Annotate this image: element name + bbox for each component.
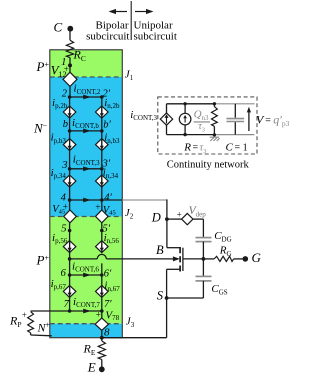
svg-text:6′: 6′ <box>104 268 112 279</box>
wire left 3-4 <box>69 169 71 200</box>
node D <box>165 217 169 221</box>
wire V78 to node8 <box>101 330 103 337</box>
current source ip,2b <box>63 106 76 118</box>
current source ip,56 <box>63 241 76 253</box>
svg-text:3: 3 <box>61 160 67 171</box>
svg-text:+: + <box>64 64 69 74</box>
wire right 6p-7p <box>101 275 103 311</box>
svg-text:7: 7 <box>64 299 70 310</box>
wire RC to node1 <box>69 58 71 66</box>
wire right 2p-bp <box>101 97 103 131</box>
svg-text:b′: b′ <box>103 119 111 130</box>
svg-text:S: S <box>157 289 164 303</box>
wire right 3p-4p <box>101 169 103 200</box>
node 6 <box>68 273 72 277</box>
svg-text:5: 5 <box>61 224 66 235</box>
junction J1 dashed line <box>50 76 123 78</box>
wire left b-3 <box>69 131 71 169</box>
svg-text:+: + <box>63 201 68 211</box>
wire 6-6p with iCONT,6 arrow <box>70 274 102 276</box>
resistor RG <box>214 256 233 261</box>
node 5p <box>100 229 104 233</box>
current source in,56 <box>96 241 109 253</box>
node 8 <box>100 336 104 340</box>
current source in,34 <box>96 175 109 187</box>
dependent source V78 (J3 diamond) <box>95 318 108 330</box>
wire CDG to gate node <box>202 242 204 259</box>
continuity network dashed box <box>158 97 257 154</box>
wire gate node to CGS <box>202 259 204 276</box>
current source in,b3 <box>96 139 109 151</box>
wire D to Vdep <box>167 218 182 220</box>
node 3 <box>68 167 72 171</box>
node 5 <box>68 229 72 233</box>
resistor RE <box>98 341 105 360</box>
wire CGS to S <box>202 281 204 298</box>
wire node8 to RE <box>101 338 103 341</box>
wire 7-7p with iCONT,7 arrow <box>70 310 102 312</box>
node B junction on left chain <box>68 257 72 261</box>
left arrow <box>112 11 127 13</box>
terminal C <box>67 26 73 32</box>
wire V45R to node5p <box>101 223 103 231</box>
continuity source diamond <box>166 104 168 113</box>
wire 2-2p with iCONT,2 arrow <box>70 96 102 98</box>
wire 7p to V78 <box>101 311 103 318</box>
node bp <box>100 129 104 133</box>
wire B from left chain with hop over right chain <box>70 258 98 260</box>
svg-text:= 1: = 1 <box>235 143 248 154</box>
node 2 <box>68 95 72 99</box>
node S <box>165 296 169 300</box>
wire RG to G <box>234 258 243 260</box>
right arrow <box>135 11 150 13</box>
node 4 <box>68 198 72 202</box>
current source ip,b3 <box>63 139 76 151</box>
svg-text:+: + <box>96 310 101 320</box>
svg-text:C: C <box>54 19 63 34</box>
capacitor CGS <box>196 275 212 277</box>
dependent source V45 right (J2) <box>96 210 109 223</box>
mosfet gate lead <box>183 258 204 260</box>
continuity top rail <box>167 103 215 105</box>
dependent source V45 left (J2) <box>64 210 77 223</box>
junction J3 dashed line <box>50 323 123 325</box>
wire 4-4p with arrow <box>70 199 102 201</box>
node b <box>68 129 72 133</box>
svg-text:R: R <box>183 142 191 154</box>
wire node1 to V12 source <box>69 65 71 72</box>
wire left 2-b <box>69 97 71 131</box>
mosfet channel bar segments <box>179 247 181 253</box>
current source in,67 <box>96 285 109 297</box>
node 7p <box>100 309 104 313</box>
wire node7 to Rp <box>31 310 70 312</box>
node 7 <box>68 309 72 313</box>
svg-text:b: b <box>63 119 68 130</box>
svg-text:=: = <box>193 143 199 154</box>
wire b-bp with iCONT,b arrow <box>70 130 102 132</box>
svg-text:6: 6 <box>61 268 67 279</box>
wire C to RC <box>69 29 71 41</box>
wire 4 to V45L <box>69 200 71 210</box>
bipolar/unipolar divider line <box>130 1 132 40</box>
wire Vdep to CDG <box>193 218 204 220</box>
wire left 5-6 <box>69 231 71 276</box>
mosfet gate bar <box>182 248 184 271</box>
svg-text:C: C <box>226 142 234 154</box>
ground symbol <box>210 137 220 141</box>
V arrow <box>248 111 250 132</box>
continuity bottom rail <box>167 134 215 136</box>
wire V12 to node2 <box>69 86 71 97</box>
junction J2 dashed line <box>50 216 123 218</box>
current source ip,34 <box>63 175 76 187</box>
dependent source V12 (J1 diamond) <box>63 72 77 86</box>
svg-text:B: B <box>156 243 164 257</box>
resistor RC <box>66 40 73 57</box>
wire 4p to V45R <box>101 200 103 210</box>
wire 4p to D corner <box>102 199 123 201</box>
terminal E <box>99 366 105 372</box>
wire RE to E <box>101 360 103 370</box>
node 3p <box>100 167 104 171</box>
svg-text:G: G <box>252 250 262 265</box>
svg-text:D: D <box>151 211 161 225</box>
continuity current source circle <box>184 104 186 114</box>
node 4p <box>100 198 104 202</box>
current source in,2b <box>96 106 109 118</box>
capacitor CDG <box>196 237 212 239</box>
svg-text:2: 2 <box>62 88 68 99</box>
svg-text:8: 8 <box>104 326 110 338</box>
svg-text:subcircuit: subcircuit <box>134 31 177 43</box>
wire V45L to node5 <box>69 223 71 231</box>
continuity capacitor C <box>234 104 236 118</box>
resistor RP <box>28 312 34 333</box>
svg-text:+: + <box>95 202 100 212</box>
wire S down to node 8 <box>166 298 168 338</box>
svg-text:+: + <box>177 210 182 220</box>
node 2p <box>100 95 104 99</box>
svg-text:=: = <box>265 116 271 127</box>
node 1 <box>68 63 72 67</box>
mosfet drain lead <box>167 247 180 249</box>
B body arrowhead <box>173 256 180 261</box>
wire right 5p-6p <box>101 231 103 254</box>
wire Rp to box bottom <box>30 333 32 335</box>
N-drift/P regions box fills <box>50 50 123 77</box>
svg-text:4′: 4′ <box>104 192 112 203</box>
wire right bp-3p <box>101 131 103 169</box>
node 6p <box>100 273 104 277</box>
current source ip,67 <box>63 285 76 297</box>
svg-text:Continuity network: Continuity network <box>167 159 250 170</box>
svg-text:+: + <box>22 310 27 320</box>
wire left 6-7 <box>69 275 71 311</box>
dependent source Vdep <box>182 213 193 224</box>
terminal G <box>243 256 249 262</box>
wire down to D <box>166 199 168 247</box>
svg-text:E: E <box>87 359 96 374</box>
wire 3-3p with iCONT,3 arrow <box>70 168 102 170</box>
continuity resistor R <box>213 104 215 107</box>
mosfet source lead <box>167 268 181 270</box>
svg-text:subcircuit: subcircuit <box>86 31 129 43</box>
wire gate to RG <box>203 258 214 260</box>
gate node <box>202 257 206 261</box>
